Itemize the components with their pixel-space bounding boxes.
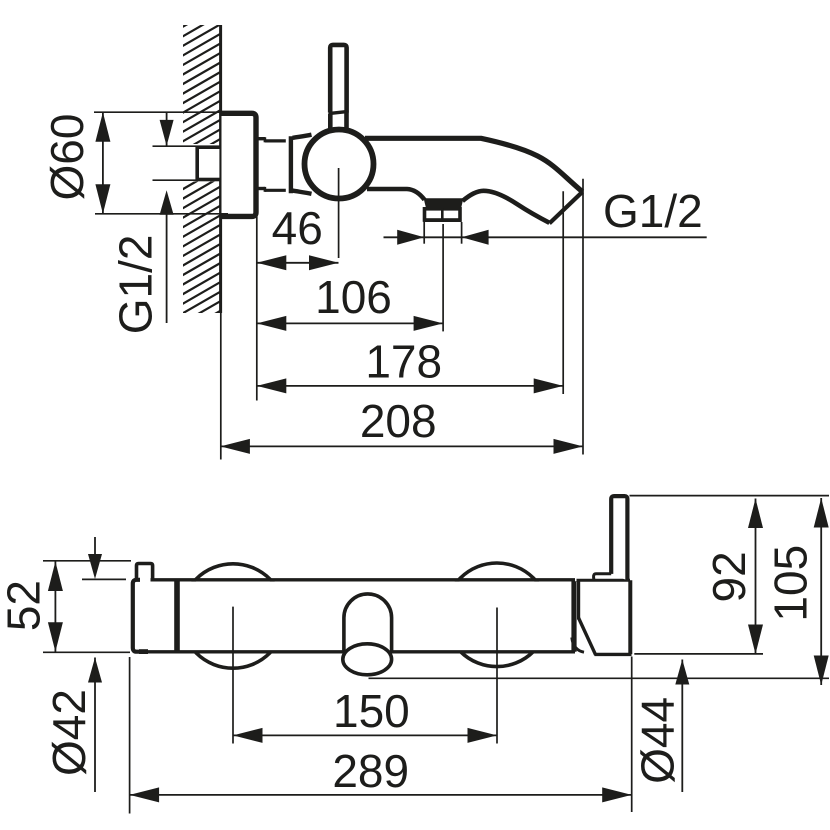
svg-text:92: 92: [703, 551, 755, 602]
svg-text:G1/2: G1/2: [110, 235, 162, 335]
svg-text:G1/2: G1/2: [603, 185, 703, 237]
svg-text:Ø60: Ø60: [41, 114, 93, 201]
svg-text:208: 208: [360, 395, 437, 447]
svg-text:150: 150: [333, 685, 410, 737]
svg-text:46: 46: [272, 202, 323, 254]
svg-text:178: 178: [365, 336, 442, 388]
svg-text:105: 105: [765, 545, 817, 622]
svg-text:106: 106: [315, 271, 392, 323]
svg-text:289: 289: [332, 745, 409, 797]
svg-text:Ø42: Ø42: [43, 689, 95, 776]
svg-text:52: 52: [0, 580, 50, 631]
svg-text:Ø44: Ø44: [632, 697, 684, 784]
